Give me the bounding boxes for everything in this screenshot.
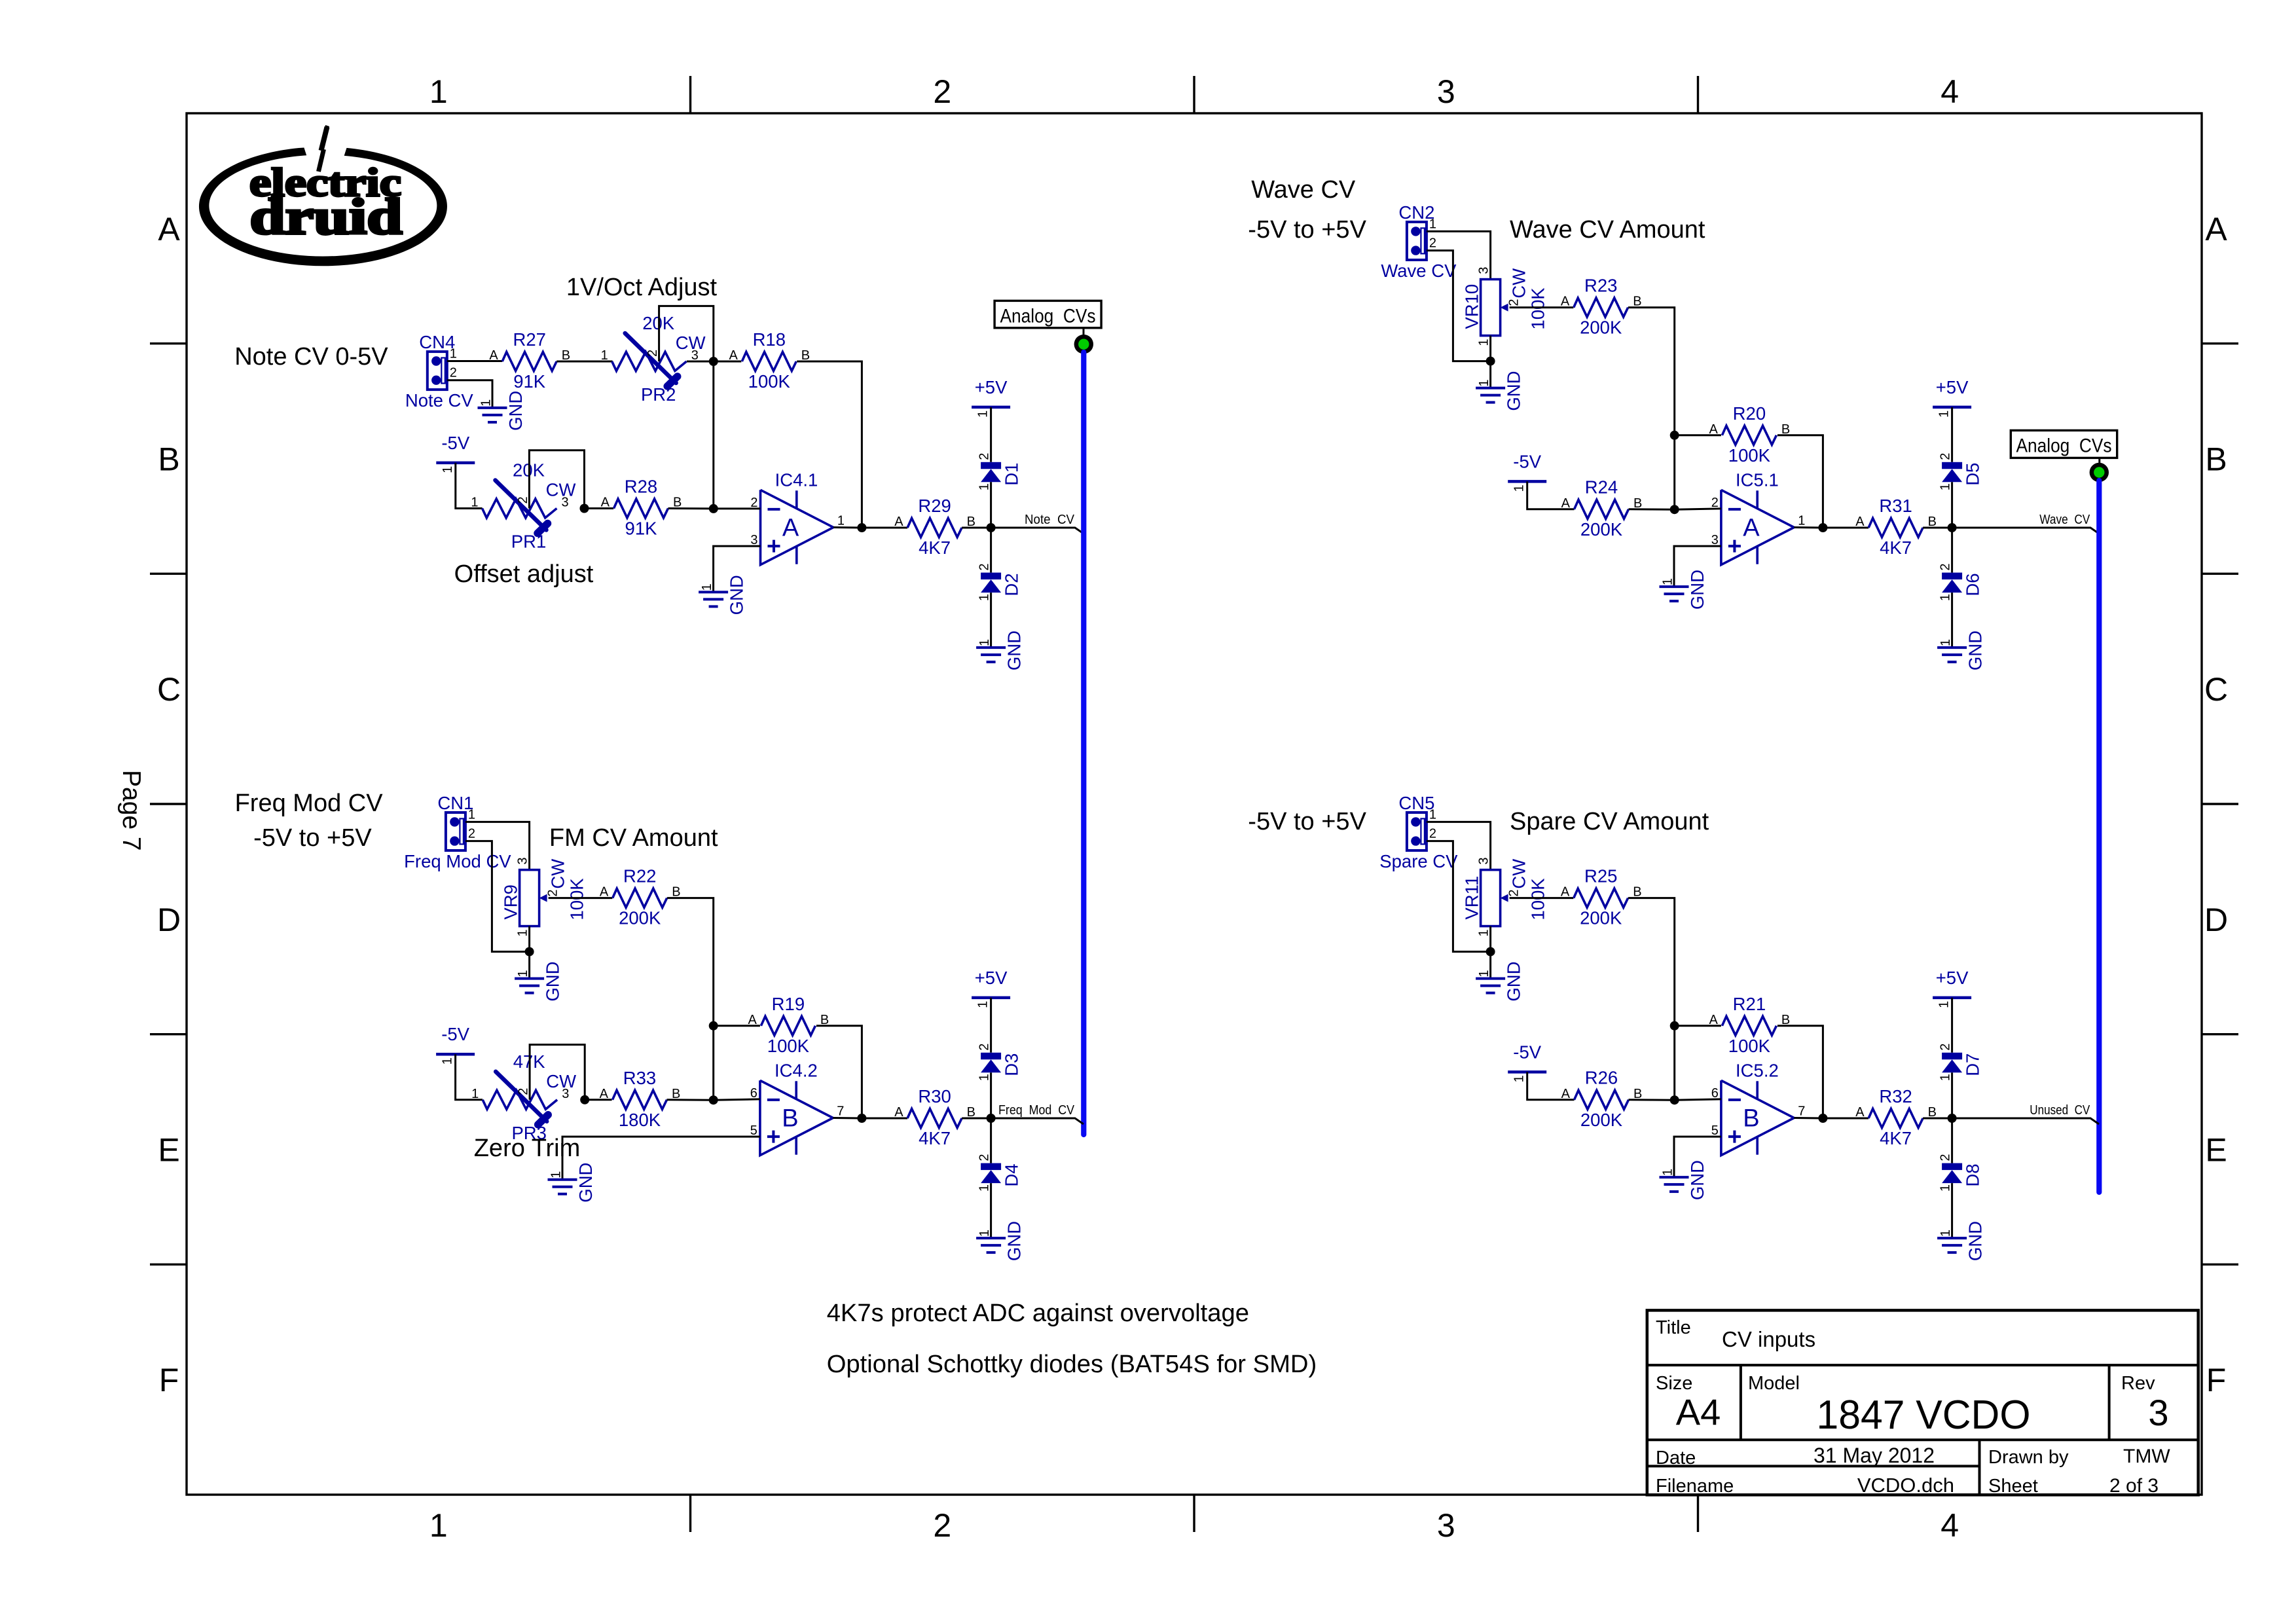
svg-text:100K: 100K <box>567 878 587 921</box>
resistor R20 100K <box>1709 403 1791 465</box>
svg-text:-5V to +5V: -5V to +5V <box>1248 216 1366 244</box>
svg-text:R27: R27 <box>513 329 545 350</box>
junction <box>1818 523 1827 532</box>
svg-text:Page 7: Page 7 <box>117 770 145 851</box>
svg-text:+5V: +5V <box>975 377 1008 397</box>
svg-text:31 May 2012: 31 May 2012 <box>1813 1444 1935 1467</box>
ground GND at IC4.1 <box>699 575 747 615</box>
svg-text:1: 1 <box>1661 578 1675 585</box>
wire R26 B to IC5.2 pin 6 <box>1629 1099 1675 1101</box>
svg-text:1: 1 <box>977 594 992 601</box>
resistor R18 100K <box>729 329 810 392</box>
junction <box>1486 357 1495 366</box>
power +5V <box>972 377 1010 418</box>
svg-text:VCDO.dch: VCDO.dch <box>1857 1474 1954 1497</box>
diode D8 <box>1939 1154 1983 1192</box>
svg-text:A: A <box>894 1105 903 1120</box>
svg-text:IC4.1: IC4.1 <box>775 469 818 490</box>
resistor R26 200K <box>1575 1067 1643 1130</box>
wire output to R32 <box>1823 1118 1868 1120</box>
svg-text:A: A <box>1561 1087 1571 1101</box>
svg-text:100K: 100K <box>748 371 791 392</box>
svg-text:GND: GND <box>1965 1221 1986 1261</box>
svg-text:100K: 100K <box>1728 445 1771 465</box>
trimmer potentiometer PR3 47K <box>471 1051 576 1143</box>
svg-text:GND: GND <box>1504 371 1524 410</box>
svg-text:1: 1 <box>1937 410 1952 418</box>
junction <box>1670 1021 1679 1030</box>
junction <box>580 504 589 513</box>
wire VR9 pin1 to junction <box>528 926 530 952</box>
svg-text:1V/Oct Adjust: 1V/Oct Adjust <box>566 274 718 301</box>
svg-text:1: 1 <box>1512 1075 1527 1082</box>
svg-text:R18: R18 <box>753 329 786 350</box>
diode D6 <box>1939 563 1983 601</box>
potentiometer VR10 100K <box>1462 266 1548 346</box>
wire R27 to PR2 <box>556 361 612 363</box>
wire R21 B to output node <box>1777 1026 1823 1118</box>
wire Freq Mod CV to bus <box>991 1118 1084 1124</box>
connector CN2 <box>1381 202 1457 281</box>
svg-text:4K7: 4K7 <box>1880 1128 1912 1148</box>
potentiometer VR9 100K <box>501 857 587 936</box>
wire R22 B to R19 node <box>667 898 714 1026</box>
svg-text:1: 1 <box>516 929 530 936</box>
svg-text:1: 1 <box>976 410 991 418</box>
svg-text:2: 2 <box>1429 827 1436 841</box>
wire R28 to IC4.1 pin 2 <box>668 507 714 509</box>
svg-text:E: E <box>2205 1132 2227 1169</box>
wire PR2 pin3 to node <box>687 361 714 363</box>
svg-text:GND: GND <box>575 1163 596 1203</box>
wire R23 B to R20 node <box>1628 308 1675 435</box>
svg-text:FM CV Amount: FM CV Amount <box>549 824 718 852</box>
wire IC5.2 output <box>1794 1117 1823 1120</box>
svg-text:R23: R23 <box>1584 276 1617 296</box>
power -5V <box>1508 1042 1546 1082</box>
wire PR1 to R28 <box>585 507 614 509</box>
svg-text:100K: 100K <box>1528 878 1548 921</box>
svg-text:3: 3 <box>562 1087 569 1101</box>
svg-text:A: A <box>489 348 498 363</box>
svg-text:Note CV: Note CV <box>1025 512 1074 527</box>
junction <box>709 504 718 513</box>
svg-text:1: 1 <box>1661 1169 1675 1176</box>
svg-text:1: 1 <box>1937 1001 1952 1008</box>
svg-text:R32: R32 <box>1879 1086 1912 1106</box>
wire R29 B to clamp node <box>962 527 991 529</box>
svg-text:91K: 91K <box>513 371 546 392</box>
wire R33 B to IC4.2 pin 6 <box>667 1099 714 1101</box>
trimmer potentiometer PR1 20K <box>471 460 575 552</box>
junction <box>987 523 996 532</box>
svg-text:-5V: -5V <box>441 433 469 453</box>
svg-text:CV inputs: CV inputs <box>1722 1327 1815 1351</box>
svg-text:Wave CV Amount: Wave CV Amount <box>1510 216 1705 244</box>
ground GND at IC5.1 <box>1660 570 1708 610</box>
wire CN1 pin1 to VR9 pin3 <box>465 822 530 869</box>
wire D3 to node <box>990 1072 992 1118</box>
wire R19 B to output node <box>816 1026 862 1118</box>
svg-text:-5V: -5V <box>441 1024 469 1044</box>
wire CN1 pin2 down <box>465 841 530 952</box>
wire node down to IC4.2 pin 6 <box>712 1026 714 1100</box>
wire PR1 wiper to pin 3 <box>529 450 584 509</box>
power -5V <box>1508 451 1546 492</box>
svg-text:A: A <box>600 1087 609 1101</box>
svg-text:Analog CVs: Analog CVs <box>1000 306 1096 327</box>
svg-text:1: 1 <box>1477 379 1491 386</box>
svg-text:+5V: +5V <box>1936 968 1969 988</box>
svg-text:1: 1 <box>516 970 530 977</box>
svg-text:4K7: 4K7 <box>919 538 951 558</box>
wire node to IC4.2 inverting input <box>714 1099 760 1100</box>
svg-text:GND: GND <box>1687 1160 1707 1200</box>
wire IC5.1 output <box>1794 526 1823 529</box>
resistor R22 200K <box>600 866 681 928</box>
svg-text:3: 3 <box>1477 857 1491 864</box>
svg-text:CW: CW <box>1509 859 1529 889</box>
svg-text:Spare CV Amount: Spare CV Amount <box>1510 808 1709 835</box>
svg-text:1: 1 <box>977 483 992 490</box>
svg-text:1: 1 <box>1939 639 1953 646</box>
svg-text:B: B <box>2205 441 2227 478</box>
svg-text:A: A <box>1709 1013 1719 1027</box>
wire R18 B to output node <box>797 361 862 528</box>
wire VR10 pin1 to junction <box>1489 336 1491 361</box>
svg-text:B: B <box>1743 1104 1759 1132</box>
junction <box>1818 1114 1827 1123</box>
junction <box>1670 431 1679 440</box>
svg-text:2: 2 <box>977 563 992 570</box>
wire output to R31 <box>1823 527 1868 529</box>
wire CN5 pin2 down <box>1427 841 1491 952</box>
svg-text:R22: R22 <box>623 866 656 886</box>
svg-text:GND: GND <box>1004 1221 1025 1261</box>
svg-text:D6: D6 <box>1963 573 1983 596</box>
diode D1 <box>977 453 1022 491</box>
svg-text:3: 3 <box>1477 266 1491 274</box>
ground GND at D6 <box>1937 630 1986 670</box>
svg-text:1: 1 <box>1477 970 1491 977</box>
svg-text:VR10: VR10 <box>1462 284 1482 329</box>
ground GND at CN4 <box>478 391 526 431</box>
junction <box>1670 1095 1679 1104</box>
svg-text:2: 2 <box>1939 563 1953 570</box>
wire D6 to ground <box>1951 593 1953 647</box>
resistor R23 200K <box>1561 276 1642 338</box>
wire CN2 pin2 down <box>1427 251 1491 361</box>
ground GND at D2 <box>976 630 1025 670</box>
svg-text:2: 2 <box>1939 453 1953 460</box>
svg-text:A: A <box>2205 211 2227 247</box>
wire PR3 wiper to pin 3 <box>530 1045 585 1100</box>
svg-text:Sheet: Sheet <box>1988 1476 2038 1497</box>
resistor R33 180K <box>600 1068 681 1130</box>
ground GND at IC4.2 <box>548 1163 596 1203</box>
svg-text:CW: CW <box>1509 268 1529 299</box>
svg-text:-5V to +5V: -5V to +5V <box>1248 808 1366 835</box>
svg-text:R20: R20 <box>1733 403 1766 424</box>
junction <box>987 1114 996 1123</box>
svg-text:A: A <box>1709 422 1719 437</box>
svg-text:R29: R29 <box>918 496 951 516</box>
svg-text:1: 1 <box>977 1074 992 1081</box>
svg-text:7: 7 <box>837 1104 844 1119</box>
wire D7 to node <box>1951 1072 1953 1118</box>
wire D1 to node <box>990 482 992 528</box>
svg-text:2: 2 <box>1507 299 1522 306</box>
svg-text:+5V: +5V <box>1936 377 1969 397</box>
svg-text:1: 1 <box>1477 338 1491 346</box>
svg-text:A: A <box>1561 885 1570 900</box>
svg-text:D4: D4 <box>1002 1163 1022 1186</box>
svg-text:180K: 180K <box>619 1110 661 1130</box>
svg-text:D8: D8 <box>1963 1163 1983 1186</box>
junction <box>709 357 718 366</box>
power +5V <box>1933 377 1971 418</box>
wire R19 node to resistor <box>714 1025 760 1027</box>
junction <box>1948 1114 1957 1123</box>
svg-text:2: 2 <box>933 73 951 110</box>
svg-text:2: 2 <box>1429 236 1436 251</box>
svg-text:4K7: 4K7 <box>1880 538 1912 558</box>
wire +5V to D3 <box>990 998 992 1053</box>
diode D4 <box>977 1154 1022 1192</box>
svg-text:A: A <box>1561 496 1571 511</box>
svg-text:VR11: VR11 <box>1462 876 1482 920</box>
svg-text:1847 VCDO: 1847 VCDO <box>1817 1393 2031 1438</box>
resistor R31 4K7 <box>1855 496 1937 558</box>
wire IC4.1 pin 3 to ground <box>714 546 761 592</box>
svg-text:E: E <box>158 1132 179 1169</box>
svg-text:Spare CV: Spare CV <box>1379 851 1458 871</box>
svg-text:R31: R31 <box>1879 496 1912 516</box>
wire R25 B to R21 node <box>1628 898 1675 1026</box>
resistor R19 100K <box>748 994 829 1056</box>
svg-text:3: 3 <box>516 857 530 864</box>
wire node down to IC5.1 pin 2 <box>1673 435 1675 509</box>
svg-text:1: 1 <box>1939 1074 1953 1081</box>
wire R20 B to output node <box>1777 435 1823 528</box>
wire junction to ground <box>1489 952 1491 979</box>
wire +5V to D5 <box>1951 407 1953 462</box>
svg-text:R26: R26 <box>1585 1067 1618 1087</box>
wire R24 B to IC5.1 pin 2 <box>1629 508 1675 510</box>
svg-text:Date: Date <box>1656 1448 1696 1468</box>
junction <box>709 1021 718 1030</box>
svg-text:200K: 200K <box>1580 318 1622 338</box>
svg-text:1: 1 <box>976 1001 991 1008</box>
svg-text:1: 1 <box>837 514 845 528</box>
wire -5V to R24 <box>1527 481 1575 509</box>
svg-text:2: 2 <box>546 889 560 896</box>
svg-text:2: 2 <box>468 827 475 841</box>
svg-text:R19: R19 <box>772 994 805 1014</box>
svg-text:2: 2 <box>1507 889 1522 896</box>
svg-text:1: 1 <box>471 1087 479 1101</box>
electric druid logo <box>199 125 447 266</box>
power +5V <box>972 968 1010 1008</box>
ground GND at VR10 <box>1476 371 1524 410</box>
wire D5 to node <box>1951 482 1953 528</box>
wire +5V to D1 <box>990 407 992 462</box>
svg-text:A: A <box>601 496 610 510</box>
svg-text:A: A <box>782 514 799 541</box>
svg-text:2: 2 <box>450 366 457 380</box>
svg-text:Freq Mod CV: Freq Mod CV <box>998 1103 1074 1118</box>
svg-text:Freq Mod CV: Freq Mod CV <box>404 851 511 871</box>
wire output to R30 <box>862 1118 907 1120</box>
wire R21 node to resistor <box>1675 1025 1721 1027</box>
junction <box>857 523 866 532</box>
svg-text:3: 3 <box>2148 1392 2168 1433</box>
wire IC4.1 output <box>833 526 862 529</box>
svg-text:1: 1 <box>1939 1184 1953 1192</box>
svg-text:A: A <box>1855 515 1865 529</box>
diode D7 <box>1939 1044 1983 1082</box>
svg-text:D1: D1 <box>1002 463 1022 486</box>
svg-text:200K: 200K <box>619 908 661 928</box>
svg-text:4K7: 4K7 <box>919 1128 951 1148</box>
svg-text:1: 1 <box>1429 217 1436 231</box>
svg-text:D2: D2 <box>1002 573 1022 596</box>
svg-text:Optional Schottky diodes (BAT5: Optional Schottky diodes (BAT54S for SMD… <box>827 1350 1317 1378</box>
svg-text:D: D <box>157 902 181 938</box>
wire D4 to ground <box>990 1183 992 1238</box>
wire node to D8 <box>1951 1118 1953 1163</box>
bus Analog CVs right <box>2096 481 2102 1192</box>
wire VR10 wiper to R23 <box>1510 306 1574 308</box>
junction <box>1670 505 1679 514</box>
svg-text:A4: A4 <box>1676 1391 1721 1432</box>
svg-text:F: F <box>2206 1362 2227 1398</box>
svg-text:R30: R30 <box>918 1086 951 1106</box>
svg-text:C: C <box>157 671 181 708</box>
svg-text:2: 2 <box>646 350 660 357</box>
svg-text:+5V: +5V <box>975 968 1008 988</box>
ground GND at VR11 <box>1476 961 1524 1001</box>
svg-text:Title: Title <box>1656 1317 1691 1338</box>
resistor R24 200K <box>1575 477 1643 539</box>
svg-text:4: 4 <box>1941 73 1959 110</box>
svg-text:1: 1 <box>1798 514 1805 528</box>
svg-text:1: 1 <box>471 496 478 510</box>
wire node to D6 <box>1951 528 1953 573</box>
svg-text:91K: 91K <box>625 519 658 539</box>
op-amp IC5.2 <box>1711 1060 1806 1155</box>
resistor R27 91K <box>489 329 570 392</box>
svg-text:VR9: VR9 <box>501 884 521 920</box>
svg-text:GND: GND <box>1004 630 1025 670</box>
svg-text:3: 3 <box>1437 1507 1455 1544</box>
svg-text:Unused CV: Unused CV <box>2030 1103 2090 1118</box>
op-amp IC4.1 <box>750 469 845 564</box>
resistor R28 91K <box>601 477 682 539</box>
wire -5V to R26 <box>1527 1072 1575 1099</box>
diode D5 <box>1939 453 1983 491</box>
svg-text:PR1: PR1 <box>511 532 547 552</box>
svg-text:200K: 200K <box>1580 1110 1623 1130</box>
svg-text:GND: GND <box>1504 961 1524 1001</box>
wire CN2 pin1 to VR10 pin3 <box>1427 231 1491 279</box>
title block <box>1647 1310 2198 1497</box>
svg-text:Offset adjust: Offset adjust <box>454 560 594 588</box>
svg-text:2: 2 <box>517 1088 531 1095</box>
svg-text:GND: GND <box>1965 630 1986 670</box>
bus label Analog CVs left <box>994 301 1101 327</box>
svg-text:1: 1 <box>700 583 714 591</box>
svg-text:2 of 3: 2 of 3 <box>2109 1475 2159 1497</box>
svg-text:1: 1 <box>1939 594 1953 601</box>
svg-text:Wave CV: Wave CV <box>1251 176 1356 204</box>
svg-text:PR2: PR2 <box>641 384 676 405</box>
svg-text:3: 3 <box>562 496 569 510</box>
power +5V <box>1933 968 1971 1008</box>
wire VR11 pin1 to junction <box>1489 926 1491 952</box>
wire CN5 pin1 to VR11 pin3 <box>1427 822 1491 869</box>
wire R31 B to clamp node <box>1923 527 1952 529</box>
svg-text:Zero Trim: Zero Trim <box>474 1135 581 1162</box>
svg-text:1: 1 <box>450 347 457 361</box>
svg-text:100K: 100K <box>1728 1036 1771 1056</box>
wire Unused CV to bus <box>1952 1118 2099 1124</box>
wire -5V to PR3 <box>456 1054 483 1100</box>
svg-text:C: C <box>2204 671 2228 708</box>
junction <box>857 1114 866 1123</box>
svg-text:D3: D3 <box>1002 1053 1022 1076</box>
wire node to IC4.1 inverting input <box>714 507 761 509</box>
svg-text:-5V: -5V <box>1513 1042 1541 1062</box>
junction <box>1948 523 1957 532</box>
wire R32 B to clamp node <box>1923 1118 1952 1120</box>
wire R20 node to resistor <box>1675 434 1721 436</box>
svg-text:Analog CVs: Analog CVs <box>2016 435 2112 457</box>
diode D3 <box>977 1044 1022 1082</box>
wire node to IC5.2 inverting input <box>1675 1099 1721 1100</box>
svg-text:4: 4 <box>1941 1507 1959 1544</box>
wire +5V to D7 <box>1951 998 1953 1053</box>
svg-text:200K: 200K <box>1580 519 1623 539</box>
svg-text:B: B <box>158 441 179 478</box>
trimmer potentiometer PR2 20K <box>601 313 706 405</box>
wire IC4.2 output <box>833 1117 862 1120</box>
junction <box>1486 947 1495 957</box>
svg-text:F: F <box>159 1362 179 1398</box>
svg-text:druid: druid <box>250 189 403 245</box>
svg-text:100K: 100K <box>767 1036 810 1056</box>
junction <box>580 1095 589 1104</box>
wire R30 B to clamp node <box>962 1118 991 1120</box>
connector CN4 <box>405 332 474 410</box>
resistor R21 100K <box>1709 994 1791 1056</box>
svg-text:A: A <box>158 211 180 247</box>
svg-text:Wave CV: Wave CV <box>2039 512 2090 527</box>
svg-text:1: 1 <box>977 1184 992 1192</box>
wire CN4 pin1 to R27 <box>447 360 502 362</box>
svg-text:1: 1 <box>429 1507 448 1544</box>
wire node to IC5.1 inverting input <box>1675 509 1721 509</box>
svg-text:Note CV 0-5V: Note CV 0-5V <box>234 343 388 371</box>
svg-text:IC4.2: IC4.2 <box>774 1060 818 1080</box>
svg-text:R21: R21 <box>1733 994 1766 1014</box>
node Analog CVs right (green) <box>2090 463 2109 482</box>
svg-text:100K: 100K <box>1528 287 1548 330</box>
svg-text:1: 1 <box>441 466 455 473</box>
wire junction to ground <box>528 952 530 979</box>
connector CN1 <box>404 793 511 871</box>
svg-text:1: 1 <box>1939 483 1953 490</box>
